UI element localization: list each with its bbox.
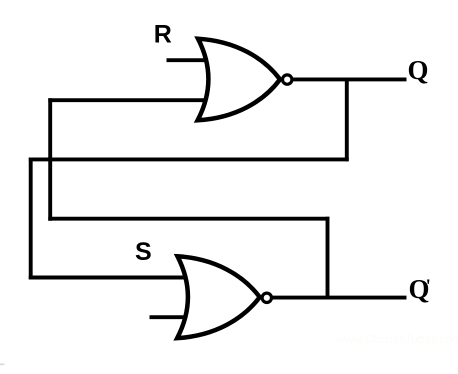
wire: vertical drop x=346.8 from Q output line <box>345 79 349 162</box>
svg-text:www.CircuitsToday.com: www.CircuitsToday.com <box>336 332 458 346</box>
wire: feedback from Q into bottom NOR gate pin 1 (horizontal at y=277.5) <box>29 276 193 280</box>
wire: S input stub to bottom NOR gate pin 2 <box>150 315 193 319</box>
NOR gate U2 (bottom, S input) body <box>177 256 260 338</box>
svg-text:S: S <box>135 238 152 266</box>
wire: feedback from Q' into top NOR gate pin 2 (horizontal at y=100) <box>48 98 212 102</box>
wire: vertical drop x=327.5 from Q' output line <box>326 217 330 300</box>
wire: vertical riser x=50 of Q' feedback <box>48 98 52 220</box>
wire: R input stub to top NOR gate pin 1 <box>167 58 212 62</box>
svg-text:Q: Q <box>408 55 429 85</box>
wire: vertical riser x=30.7 of Q feedback <box>29 158 33 280</box>
svg-text:R: R <box>154 21 172 49</box>
NOR gate U2 output inversion bubble <box>262 293 271 302</box>
faint edge artifact bottom-left <box>0 364 5 366</box>
NOR gate U1 (top, R input) body <box>198 39 280 121</box>
wire: horizontal run y=218.7 of Q' feedback <box>48 217 329 221</box>
wire: Q' output line from bottom NOR gate bubble to label Q' <box>272 296 407 300</box>
svg-text:': ' <box>426 276 431 297</box>
wire: horizontal run y=159.4 of Q feedback <box>29 157 349 161</box>
NOR gate U1 output inversion bubble <box>283 75 292 84</box>
wire: Q output line from top NOR gate bubble to label Q <box>292 77 407 81</box>
